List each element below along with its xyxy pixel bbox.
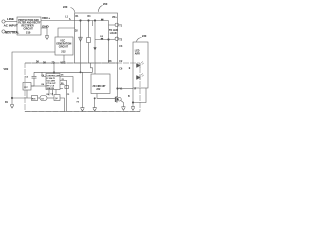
controller IC 224	[46, 74, 60, 90]
wire	[94, 50, 96, 63]
LED arrows	[141, 74, 144, 77]
svg-text:220: 220	[63, 5, 68, 9]
wire 222 top	[94, 63, 96, 74]
wire 220 bottom solid	[25, 111, 140, 113]
ground	[45, 36, 49, 40]
wire gate	[97, 94, 115, 99]
svg-text:C5: C5	[51, 93, 53, 95]
wire vcc bottom	[63, 55, 65, 63]
node dot	[11, 97, 13, 99]
wire left return	[12, 52, 55, 105]
node dot	[88, 20, 90, 22]
wire switch branch	[94, 21, 96, 44]
wire VDC+ rail	[41, 20, 109, 22]
terminal T1	[115, 23, 119, 27]
VCC generation circuit 212	[55, 37, 73, 55]
component Q2 box	[54, 95, 60, 101]
wire zener branch	[80, 21, 82, 73]
svg-text:PROTECTION AND: PROTECTION AND	[18, 19, 39, 22]
wire pin	[31, 85, 46, 87]
diode D3 on rail	[101, 19, 103, 21]
wire T2 net	[95, 39, 115, 41]
svg-text:LINE: LINE	[7, 17, 14, 21]
svg-text:ZD CIRCUIT: ZD CIRCUIT	[93, 86, 107, 88]
wire 230 bottom link	[118, 88, 134, 90]
svg-text:NEUTRAL: NEUTRAL	[5, 31, 19, 35]
svg-text:ARR: ARR	[135, 53, 140, 56]
wire bus drop	[81, 72, 83, 107]
capacitor C6	[32, 76, 37, 78]
arrow 200	[98, 6, 102, 12]
svg-text:C5: C5	[67, 94, 69, 96]
svg-text:C6: C6	[26, 77, 28, 79]
dashed controller box 220	[25, 63, 140, 112]
wire right bus down	[117, 63, 119, 97]
wire vcc to box200	[58, 28, 75, 37]
svg-text:AC INPUT: AC INPUT	[4, 23, 18, 27]
driving circuit box 222	[91, 74, 110, 94]
node dot	[80, 72, 81, 73]
svg-text:LOAD: LOAD	[110, 32, 117, 35]
svg-text:GND: GND	[42, 24, 50, 28]
wire R8 branch	[88, 21, 90, 64]
svg-text:RECTIFIER: RECTIFIER	[22, 26, 34, 28]
resistor R8	[87, 38, 91, 43]
svg-text:D5: D5	[61, 75, 63, 77]
wire source	[121, 101, 124, 107]
svg-text:210: 210	[26, 31, 31, 35]
svg-text:FILTER AND RECTIF: FILTER AND RECTIF	[18, 22, 41, 25]
node dot	[94, 20, 96, 22]
LED D21	[137, 63, 141, 67]
ground	[121, 107, 125, 111]
drop to pin	[42, 72, 46, 76]
svg-text:IC 224 P1: IC 224 P1	[47, 77, 55, 80]
node dot	[117, 88, 119, 90]
svg-text:R17: R17	[24, 87, 27, 89]
ground	[93, 108, 97, 111]
text labels	[4, 16, 51, 35]
ground	[10, 105, 14, 109]
svg-text:212: 212	[61, 50, 66, 54]
svg-text:R6: R6	[47, 94, 49, 96]
arrow 230	[137, 38, 142, 42]
transistor Q1	[118, 97, 122, 101]
component on FB wire	[65, 86, 69, 89]
svg-text:230: 230	[142, 34, 147, 38]
svg-text:R9: R9	[61, 83, 63, 85]
svg-text:VD+: VD+	[112, 16, 117, 19]
wire	[47, 97, 54, 99]
svg-text:R18: R18	[32, 99, 35, 101]
capacitor C9 oval	[40, 96, 47, 101]
node dot	[53, 72, 54, 73]
wire	[60, 98, 65, 112]
stub	[92, 21, 94, 27]
diode D9	[101, 38, 103, 40]
wire r17 down	[26, 90, 28, 98]
svg-text:VCC: VCC	[60, 41, 65, 43]
wire IC right pins	[60, 77, 73, 93]
LED module box 230	[133, 42, 148, 88]
arrow 220	[71, 8, 75, 13]
svg-text:ZD: ZD	[52, 62, 55, 64]
wire	[5, 21, 17, 23]
svg-text:CIRCUIT: CIRCUIT	[59, 47, 69, 49]
ground	[80, 108, 84, 111]
terminal T2	[115, 37, 119, 41]
wire GND branch	[41, 28, 47, 36]
zener ZD2	[79, 37, 83, 41]
node tick	[69, 18, 70, 20]
svg-text:VDC+: VDC+	[42, 16, 50, 20]
node dot	[80, 20, 82, 22]
converter box 200	[75, 13, 118, 63]
terminal NEUTRAL	[2, 30, 5, 33]
wire IC top	[53, 63, 55, 74]
svg-text:Z2: Z2	[62, 79, 64, 81]
node dot	[108, 39, 110, 41]
wire 220 top solid	[25, 62, 75, 64]
resistor R17 box	[23, 83, 31, 91]
wire 230 left down	[132, 88, 134, 107]
svg-text:GENERATION: GENERATION	[56, 43, 71, 46]
arrow down	[94, 44, 97, 51]
svg-text:LED: LED	[135, 51, 140, 53]
wire T1	[109, 24, 116, 26]
wire	[5, 31, 17, 33]
bus wire	[34, 71, 93, 73]
node dot	[132, 102, 134, 104]
wire	[38, 97, 41, 99]
wire output down	[108, 21, 110, 64]
riser jog	[91, 63, 93, 72]
ground	[131, 107, 135, 111]
terminal LINE	[2, 20, 5, 23]
resistor R18 box	[32, 96, 38, 101]
svg-text:200: 200	[103, 2, 108, 6]
svg-text:CIRCUIT: CIRCUIT	[24, 28, 34, 30]
svg-text:C9: C9	[41, 99, 43, 101]
wire 230 right down	[133, 88, 146, 103]
wire IC bottom stubs	[49, 90, 56, 96]
rectifier block 210	[17, 17, 41, 35]
svg-text:Q2: Q2	[55, 98, 58, 100]
LED arrows	[141, 62, 144, 65]
svg-text:GND FB: GND FB	[47, 88, 55, 90]
wire to ground	[94, 98, 96, 107]
wire sense row	[12, 97, 32, 99]
svg-text:VCC: VCC	[61, 62, 66, 64]
node dot	[94, 98, 95, 99]
wire	[31, 72, 34, 86]
svg-text:VR2: VR2	[4, 68, 9, 71]
LED D22	[137, 75, 141, 79]
